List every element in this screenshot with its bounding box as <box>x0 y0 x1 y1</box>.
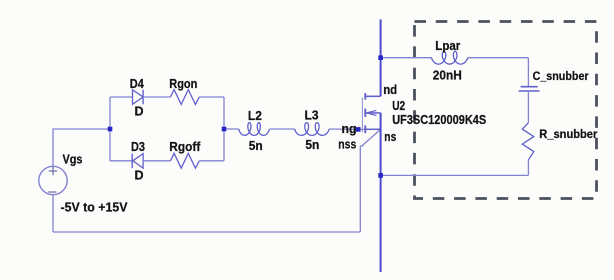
svg-text:nd: nd <box>383 83 397 97</box>
svg-text:L3: L3 <box>305 109 319 123</box>
svg-text:Lpar: Lpar <box>435 39 460 53</box>
svg-text:20nH: 20nH <box>433 69 462 83</box>
svg-text:UF3SC120009K4S: UF3SC120009K4S <box>392 113 486 127</box>
svg-text:-5V to +15V: -5V to +15V <box>61 201 129 215</box>
svg-text:Rgoff: Rgoff <box>169 140 201 154</box>
svg-text:ng: ng <box>342 122 357 136</box>
svg-text:R_snubber: R_snubber <box>539 127 597 141</box>
svg-text:ns: ns <box>384 130 396 144</box>
svg-text:Vgs: Vgs <box>63 153 83 167</box>
svg-text:D: D <box>135 105 144 119</box>
svg-text:D3: D3 <box>131 140 145 154</box>
svg-text:D4: D4 <box>130 77 144 91</box>
svg-text:L2: L2 <box>248 109 262 123</box>
svg-text:D: D <box>135 169 144 183</box>
svg-text:5n: 5n <box>249 139 263 153</box>
svg-text:Rgon: Rgon <box>169 77 197 91</box>
svg-text:U2: U2 <box>392 99 405 113</box>
svg-text:C_snubber: C_snubber <box>533 69 589 83</box>
svg-text:nss: nss <box>338 137 356 151</box>
svg-text:5n: 5n <box>305 138 319 152</box>
